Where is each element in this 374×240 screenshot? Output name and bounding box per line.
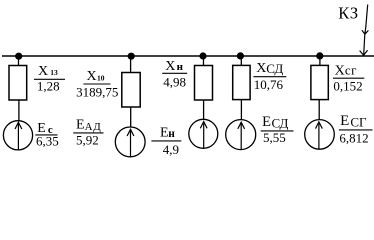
wire resistor Xn to source En [203,100,205,119]
svg-text:10: 10 [97,74,105,83]
resistor X10 (reactance rectangle) [122,73,140,108]
node junction dot J2 [128,53,135,60]
wire bus to resistor XSG [319,56,321,65]
EMF source Ec (circle with up arrow) [3,121,32,150]
resistor XSD (reactance rectangle) [233,65,250,99]
svg-text:3189,75: 3189,75 [76,85,118,100]
svg-text:н: н [177,61,184,73]
svg-text:0,152: 0,152 [333,78,362,93]
svg-text:Х: Х [87,69,97,84]
wire bus to resistor X10 [130,56,132,73]
svg-text:сг: сг [345,63,357,78]
svg-text:5,92: 5,92 [76,132,99,147]
EMF source ESD (circle with up arrow) [226,120,256,150]
wire bus to resistor X13 [18,56,20,66]
value label XSD [253,61,286,92]
svg-text:4,98: 4,98 [163,75,186,90]
svg-text:Х: Х [256,61,266,76]
svg-text:КЗ: КЗ [338,4,358,23]
svg-text:СД: СД [266,61,283,76]
svg-text:6,35: 6,35 [36,134,59,149]
svg-text:Е: Е [262,114,271,130]
svg-text:10,76: 10,76 [254,77,284,92]
svg-text:13: 13 [50,68,58,77]
bus wire (top horizontal bus) [2,55,374,57]
wire bus to resistor XSD [240,56,242,65]
value label XSG [333,63,364,94]
wire resistor XSG to source ESG [318,100,320,120]
svg-text:Х: Х [165,59,175,74]
EMF source EAD (circle with up arrow) [115,127,145,157]
svg-text:Е: Е [160,126,169,141]
value label X13 [34,64,65,93]
svg-text:н: н [168,128,175,140]
node junction dot J4 [237,52,244,59]
node junction dot J5 [316,52,323,59]
svg-text:1,28: 1,28 [37,78,60,93]
value label En [151,126,181,158]
value label Xn [162,59,187,90]
short-circuit lightning arrow to node K3 [360,5,369,56]
resistor XSG (reactance rectangle) [311,65,328,99]
resistor X13 (reactance rectangle) [9,66,27,101]
EMF source ESG (circle with up arrow) [305,120,335,150]
value label EAD [73,118,103,148]
svg-text:СГ: СГ [350,115,367,130]
svg-text:4,9: 4,9 [163,142,179,157]
svg-text:Х: Х [335,64,345,79]
EMF source En (circle with up arrow) [189,119,218,148]
wire resistor X13 to source Ec [18,100,20,121]
svg-text:5,55: 5,55 [263,130,286,145]
value label ESD [261,114,294,145]
svg-text:АД: АД [85,121,102,133]
svg-text:Х: Х [38,64,48,79]
svg-text:6,812: 6,812 [339,131,368,146]
wire resistor XSD to source ESD [240,100,242,120]
svg-text:Е: Е [76,118,85,133]
value label ESG [339,113,373,146]
value label X10 [76,69,118,100]
svg-text:Е: Е [340,113,349,129]
node junction dot J1 [15,53,22,60]
wire bus to resistor Xn [203,56,205,66]
resistor Xn (reactance rectangle) [195,66,213,101]
svg-text:СД: СД [272,116,289,131]
node junction dot J3 [199,52,206,59]
value label Ec [35,121,58,149]
wire resistor X10 to source EAD [130,107,132,127]
